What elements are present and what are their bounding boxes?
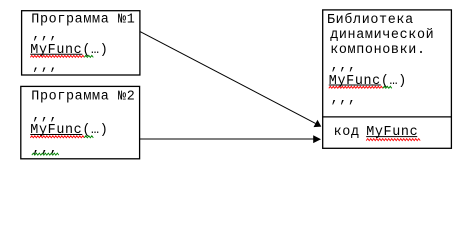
red spell squiggle box 2 (30, 136, 84, 138)
red spell squiggle library (329, 86, 383, 88)
arrow shaft from Программа №1 call to library (140, 31, 316, 123)
svg-text:MyFunc(…): MyFunc(…) (30, 43, 108, 58)
svg-text:компоновки.: компоновки. (330, 43, 425, 58)
red spell squiggle under код MyFunc (366, 139, 420, 141)
underline under MyFunc in код compartment (366, 136, 417, 138)
box Программа №2 (21, 86, 140, 158)
box Библиотека динамической компоновки (323, 10, 452, 148)
svg-text:MyFunc(…): MyFunc(…) (329, 74, 407, 89)
svg-text:,,,: ,,, (32, 109, 58, 124)
underline under MyFunc library (329, 84, 381, 86)
box Программа №1 (22, 11, 140, 75)
svg-text:MyFunc(…): MyFunc(…) (30, 123, 108, 138)
separator line of код compartment (322, 116, 452, 118)
arrowhead of arrow 2 (313, 135, 321, 143)
green grammar squiggle box 1 (84, 55, 93, 57)
svg-text:,,,: ,,, (32, 59, 58, 74)
svg-text:,,,: ,,, (331, 92, 357, 107)
svg-text:,,,: ,,, (331, 59, 357, 74)
arrowhead of arrow 1 (314, 120, 322, 127)
green grammar squiggle library (383, 86, 392, 88)
svg-text:динамической: динамической (330, 28, 434, 43)
svg-text:кодMyFunc: кодMyFunc (334, 125, 419, 140)
green grammar squiggle under commas box 2 (32, 153, 59, 155)
svg-text:Библиотека: Библиотека (327, 13, 414, 28)
red spell squiggle box 1 (30, 55, 84, 57)
svg-text:,,,: ,,, (32, 142, 58, 157)
svg-text:Программа №2: Программа №2 (31, 90, 135, 105)
svg-text:,,,: ,,, (32, 28, 58, 43)
underline under MyFunc box 2 (30, 134, 82, 136)
underline under MyFunc box 1 (30, 53, 82, 55)
svg-text:Программа №1: Программа №1 (31, 12, 135, 27)
arrow shaft from Программа №2 call to library (140, 138, 314, 140)
green grammar squiggle after MyFunc box 2 (84, 136, 93, 138)
